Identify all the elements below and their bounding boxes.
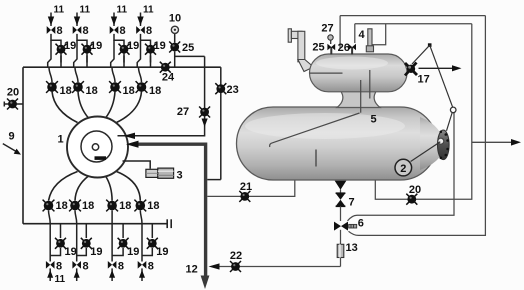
wire bus drop to valve8 (bottom branch 3) (111, 224, 113, 262)
svg-text:18: 18 (86, 85, 98, 97)
wire valve8 to valve19 tee (top branch 3) (114, 34, 124, 63)
svg-text:27: 27 (177, 106, 189, 118)
wire carousel to valve18 (bottom branch 3) (106, 176, 113, 201)
valve 18 (bottom branch 3) (106, 200, 118, 212)
item 10 small circle fitting (171, 26, 178, 33)
flow arrow up into valve 8 (bottom branch 1) (47, 268, 53, 281)
wire inner loop left drop to valve 26 (354, 24, 356, 43)
svg-text:19: 19 (156, 246, 168, 258)
svg-text:8: 8 (118, 261, 124, 273)
top branch 3: supply line 11 (111, 13, 117, 27)
valve 8 (top branch 2) (73, 26, 82, 34)
wire main drop to bus (top branch 3) (111, 40, 114, 68)
wire main drop to bus (top branch 1) (48, 40, 51, 68)
svg-text:20: 20 (7, 87, 19, 99)
valve 19 (top branch 4) (145, 44, 156, 55)
svg-text:25: 25 (182, 42, 194, 54)
circled label 2 (395, 159, 412, 176)
svg-text:18: 18 (82, 200, 94, 212)
valve 21 (239, 191, 250, 202)
link rod joint to flange (447, 113, 453, 131)
wire valve18 to bottom bus (branch 3) (111, 210, 113, 223)
wire valve 22 line with arrow into drain pipe (209, 263, 341, 269)
wire valve8 to valve19 tee (top branch 4) (141, 34, 151, 63)
item 3 cylinder (146, 168, 174, 178)
valve 19 (top branch 3) (119, 44, 130, 55)
svg-text:19: 19 (127, 246, 139, 258)
internal level tick (315, 150, 317, 167)
svg-text:11: 11 (143, 5, 154, 16)
wire outer loop top (340, 15, 485, 17)
svg-text:3: 3 (177, 170, 183, 182)
svg-text:1: 1 (58, 134, 64, 146)
wire feed line with arrow into carousel (from valve 27 line) (118, 133, 205, 139)
valve 6 (334, 222, 357, 231)
svg-text:8: 8 (83, 25, 89, 37)
wire main drop to bus (top branch 2) (74, 40, 77, 68)
svg-text:8: 8 (120, 25, 126, 37)
top branch 1: supply line 11 (48, 13, 54, 27)
tick at stub end (3, 102, 5, 107)
wire stub to valve 20 left (4, 103, 23, 105)
wire main drop to bus (top branch 4) (137, 40, 140, 68)
wire valve18 to bottom bus (branch 1) (49, 210, 51, 223)
wire carousel to valve18 (bottom branch 1) (49, 172, 78, 201)
wire valve19 return (bottom branch 2) (77, 248, 87, 256)
wire bus to valve18 (top branch 1) (49, 67, 52, 82)
carousel bar mark (95, 156, 107, 160)
vessel flange item 2 area (438, 130, 450, 160)
valve 18 (top branch 4) (136, 81, 148, 93)
svg-text:8: 8 (57, 25, 63, 37)
valve 8 (bottom branch 1) (46, 261, 55, 269)
wire bus drop to valve8 (bottom branch 2) (76, 224, 78, 262)
carousel machine item 1: outer ring (67, 117, 128, 178)
wire valve19 return (bottom branch 1) (50, 248, 60, 256)
svg-text:25: 25 (312, 42, 324, 54)
flow arrow down on valve 27 line (202, 119, 208, 128)
wire valve19 return (bottom branch 3) (112, 248, 123, 256)
valve 18 (bottom branch 2) (69, 200, 81, 212)
valve 22 (230, 261, 241, 272)
output arrow right (472, 139, 521, 146)
wire bus drop to valve8 (bottom branch 4) (141, 224, 143, 262)
svg-text:27: 27 (321, 23, 333, 35)
valve 18 (bottom branch 1) (43, 200, 55, 212)
valve 19 (bottom branch 4) (147, 238, 158, 249)
svg-text:20: 20 (409, 184, 421, 196)
wire bottom manifold bus (23, 223, 168, 225)
wire valve 20 right line to top (375, 24, 472, 200)
svg-text:8: 8 (148, 261, 154, 273)
svg-text:21: 21 (240, 181, 252, 193)
wire inner loop top (355, 23, 472, 25)
valve 24 (160, 62, 171, 73)
top branch 2: supply line 11 (74, 13, 80, 27)
svg-text:7: 7 (349, 197, 355, 209)
wire carousel to valve18 (bottom branch 4) (117, 172, 141, 201)
valve 19 (bottom branch 2) (81, 238, 92, 249)
svg-text:23: 23 (227, 84, 239, 96)
upper drum body (310, 54, 408, 92)
carousel inner ring (81, 131, 112, 162)
valve 23 (215, 83, 226, 94)
wire valve18 to bottom bus (branch 4) (140, 210, 142, 223)
svg-text:11: 11 (80, 5, 91, 16)
item 4 safety valve (366, 29, 373, 52)
wire valve19 return (bottom branch 4) (142, 248, 152, 256)
wire outer loop left drop to drum (339, 16, 341, 48)
wire valve18-1 to carousel (52, 92, 78, 123)
wire bus to valve18 (top branch 2) (75, 67, 78, 82)
thick drain pipe line 12 with arrow into carousel (126, 141, 209, 289)
valve 7 (336, 193, 346, 206)
wire valve8 to valve19 tee (top branch 1) (51, 34, 61, 63)
wire carousel to valve18 (bottom branch 2) (75, 176, 89, 201)
vessel outlet funnel (335, 181, 347, 190)
svg-text:12: 12 (186, 264, 198, 276)
wire bus to valve19 (bottom branch 2) (85, 224, 87, 239)
wire right box drop through valve 23 (220, 67, 222, 179)
svg-text:19: 19 (90, 246, 102, 258)
svg-text:18: 18 (147, 200, 159, 212)
svg-text:19: 19 (64, 40, 76, 52)
wire valve18-4 to carousel (117, 92, 142, 123)
internal pipe wall right (neck) (369, 70, 371, 99)
svg-text:18: 18 (123, 85, 135, 97)
wire valve18-3 to carousel (106, 92, 116, 119)
svg-text:18: 18 (56, 200, 68, 212)
internal pipe wall left (neck) (360, 80, 362, 113)
valve 8 (top branch 1) (47, 26, 56, 34)
link from circled 2 to flange (411, 142, 441, 162)
stub for valve 26 (drum) (351, 47, 353, 55)
vent pipe on drum (swan neck) (288, 29, 313, 72)
big vessel item 5 body (237, 107, 438, 180)
wire bus to valve19 (bottom branch 4) (151, 224, 153, 239)
wire valve 27 drop line (204, 56, 206, 136)
valve 20 (left) (7, 99, 18, 110)
wire funnel to valve 7 (340, 190, 342, 194)
linkage pivot dot (428, 43, 432, 47)
valve 19 (bottom branch 3) (118, 238, 129, 249)
wire valve 6 to item 13 (340, 230, 342, 245)
wire top manifold bus (23, 66, 221, 68)
svg-text:8: 8 (83, 261, 89, 273)
svg-text:17: 17 (418, 74, 430, 86)
link rod 17 to pivot (412, 45, 430, 64)
wire valve 7 to valve 6 (340, 206, 342, 221)
valve 26 (drum top) (348, 44, 356, 50)
svg-text:8: 8 (56, 261, 62, 273)
wire branch to item 4 (372, 24, 385, 45)
svg-text:24: 24 (162, 72, 175, 84)
wire carousel to item 3 (123, 161, 151, 169)
valve 20 (right) (406, 194, 417, 205)
valve 8 (bottom branch 2) (72, 261, 81, 269)
valve 8 (top branch 4) (136, 26, 145, 34)
internal line in drum from vent (310, 72, 343, 74)
wire regulator link line (from valve 6) (348, 113, 455, 221)
valve 19 (top branch 2) (82, 44, 93, 55)
valve 25 (left) (169, 42, 180, 53)
joint circle (450, 107, 456, 113)
wire tee to valve 27 line (175, 55, 205, 57)
wire item10 to valve 25 (174, 34, 176, 43)
wire valve25 to bus (174, 51, 176, 67)
item 27 ball (drum top) (328, 35, 333, 44)
wire valve23 line into drain pipe (207, 179, 221, 181)
top branch 4: supply line 11 (137, 13, 143, 27)
wire bus to valve19 (bottom branch 3) (122, 224, 124, 239)
svg-text:18: 18 (119, 200, 131, 212)
internal dip tube diagonal (270, 113, 360, 147)
svg-text:22: 22 (230, 250, 242, 262)
valve 18 (top branch 3) (109, 81, 121, 93)
valve 8 (bottom branch 4) (138, 261, 147, 269)
svg-text:2: 2 (400, 163, 406, 175)
valve 18 (bottom branch 4) (134, 200, 146, 212)
svg-text:26: 26 (338, 42, 350, 54)
svg-text:9: 9 (8, 131, 14, 143)
wire outer loop (valve6 line to top) (349, 16, 486, 236)
flow arrow up into valve 8 (bottom branch 3) (109, 268, 115, 281)
wire item 13 to valve 22 line (340, 258, 342, 267)
svg-text:19: 19 (127, 40, 139, 52)
valve 18 (top branch 1) (46, 81, 58, 93)
drum highlight (316, 57, 388, 70)
valve 19 (top branch 1) (56, 44, 67, 55)
wire bus drop to valve8 (bottom branch 1) (49, 224, 51, 262)
valve 8 (bottom branch 3) (108, 261, 117, 269)
neck between drum and vessel (337, 90, 380, 108)
arrow 9 pointing into box (3, 144, 21, 155)
svg-text:13: 13 (346, 242, 358, 254)
valve 18 (top branch 2) (72, 81, 84, 93)
svg-text:19: 19 (90, 40, 102, 52)
valve 27 (mid) (199, 107, 210, 118)
wire bus to valve19 (bottom branch 1) (60, 224, 62, 239)
wire left box side (22, 67, 24, 224)
svg-text:19: 19 (65, 246, 77, 258)
stub for valve 25 (drum) (330, 47, 332, 55)
blind flange end of bottom bus (167, 219, 171, 228)
wire valve8 to valve19 tee (top branch 2) (77, 34, 87, 63)
carousel hub (92, 144, 98, 150)
svg-text:11: 11 (55, 274, 66, 285)
big vessel right taper (420, 117, 442, 170)
valve 19 (bottom branch 1) (55, 238, 66, 249)
svg-text:19: 19 (154, 40, 166, 52)
wire bus to valve18 (top branch 3) (112, 67, 115, 82)
svg-text:5: 5 (371, 114, 377, 126)
flow arrow up into valve 8 (bottom branch 2) (74, 268, 80, 281)
svg-text:11: 11 (117, 5, 128, 16)
svg-text:18: 18 (60, 85, 72, 97)
wire bus to valve18 (top branch 4) (139, 67, 142, 82)
svg-text:18: 18 (149, 85, 161, 97)
valve 8 (top branch 3) (110, 26, 119, 34)
valve 25 (drum top) (327, 44, 335, 50)
wire valve18 to bottom bus (branch 2) (75, 210, 77, 223)
svg-text:8: 8 (146, 25, 152, 37)
svg-text:11: 11 (54, 5, 65, 16)
flange pivot (438, 138, 444, 144)
svg-text:10: 10 (169, 13, 181, 25)
svg-text:4: 4 (358, 29, 365, 41)
svg-text:6: 6 (358, 218, 364, 230)
regulator 17 on drum nose (405, 63, 417, 76)
flow arrow up into valve 8 (bottom branch 4) (139, 268, 145, 281)
wire valve18-2 to carousel (78, 92, 89, 119)
wire vessel drain to valve 21 (207, 180, 294, 197)
arrow from regulator 17 (419, 65, 462, 71)
big vessel highlight (245, 113, 405, 139)
link rod pivot to joint circle (430, 45, 453, 107)
item 13 coupling (337, 244, 344, 257)
